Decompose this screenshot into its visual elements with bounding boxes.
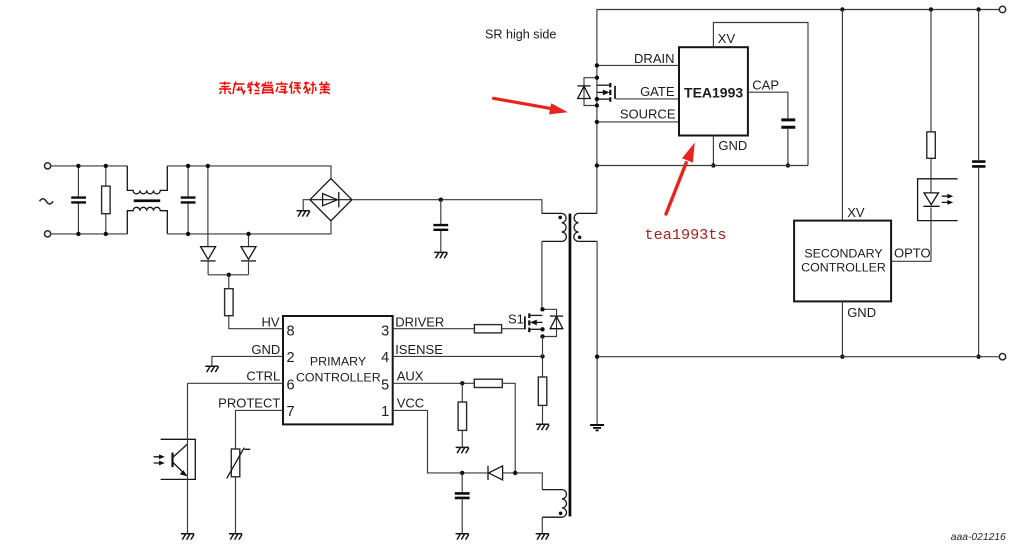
svg-text:1: 1: [381, 404, 389, 420]
red watermark CJK char 6: [290, 82, 302, 95]
wire diode D1 branch from top rail: [207, 166, 209, 247]
wire top rail choke to bridge: [167, 166, 331, 180]
wire opto emitter to ground: [187, 383, 189, 534]
op-amp U3 secondary controller box: [794, 221, 891, 302]
wire varistor to ground: [235, 477, 237, 534]
wire VCC pin1: [393, 410, 488, 473]
svg-text:S1: S1: [508, 311, 524, 326]
red watermark CJK char 7: [304, 82, 317, 95]
inductor L1 common-mode choke bottom winding: [127, 207, 167, 234]
resistor R3 gate: [474, 325, 501, 333]
wire primary bottom to S1 drain: [541, 241, 543, 309]
svg-text:PROTECT: PROTECT: [218, 396, 280, 411]
resistor R6 sense: [538, 377, 547, 405]
wire SR source rail: [597, 165, 808, 167]
transformer T1 core: [569, 214, 572, 517]
wire XV secondary controller: [841, 10, 843, 221]
diode D4 symbol: [550, 315, 563, 317]
capacitor C4: [781, 120, 795, 127]
transistor Q2 channel: [528, 313, 530, 332]
wire GND pin2: [212, 356, 283, 366]
AC terminal top-left: [45, 163, 51, 169]
transistor Q2 S1 gate bar: [524, 316, 526, 329]
capacitor C3 bulk: [439, 198, 443, 202]
opto receive light arrows: [154, 457, 161, 463]
wire AUX pin5: [393, 382, 475, 384]
svg-text:SECONDARY: SECONDARY: [804, 247, 882, 261]
transformer T1 aux polarity dot: [559, 512, 563, 516]
svg-text:6: 6: [287, 377, 295, 393]
svg-text:CAP: CAP: [752, 77, 779, 92]
svg-text:2: 2: [287, 350, 295, 366]
red watermark CJK char 5: [276, 82, 288, 95]
wire output bottom rail: [597, 356, 999, 358]
red watermark CJK char 4: [262, 82, 274, 95]
svg-text:HV: HV: [261, 315, 279, 330]
ground secondary earth: [590, 425, 604, 430]
svg-text:OPTO: OPTO: [894, 246, 931, 261]
inductor L1 core bar: [134, 199, 161, 202]
transistor Q1 drain stub: [597, 84, 610, 86]
inductor L1 common-mode choke top winding: [127, 166, 167, 194]
transistor Q1 bulk arrow: [597, 91, 604, 93]
svg-text:CONTROLLER: CONTROLLER: [296, 370, 381, 384]
svg-text:3: 3: [381, 324, 389, 340]
node dots C2: [186, 164, 190, 168]
resistor R2 HV startup: [229, 275, 283, 329]
wire secondary bottom to output return: [596, 241, 598, 424]
svg-text:TEA1993: TEA1993: [684, 85, 743, 101]
svg-text:SOURCE: SOURCE: [620, 106, 676, 121]
wire DRAIN pin: [597, 64, 679, 66]
svg-text:4: 4: [381, 350, 389, 366]
svg-text:AUX: AUX: [397, 369, 424, 384]
node dots R1: [104, 164, 108, 168]
svg-text:GATE: GATE: [640, 84, 675, 99]
wire CAP pin: [748, 92, 788, 118]
ground GND pin2: [205, 366, 218, 372]
transistor Q1 source stub: [597, 98, 610, 100]
capacitor C1 X-cap: [77, 166, 79, 234]
svg-text:tea1993ts: tea1993ts: [645, 226, 727, 244]
ground C5: [456, 534, 469, 540]
svg-text:GND: GND: [847, 305, 876, 320]
red watermark CJK char 2: [233, 82, 245, 95]
transistor Q1 gate bar: [614, 86, 616, 99]
opto LED light arrows: [942, 196, 949, 202]
wire PROTECT pin7: [236, 410, 284, 449]
bridge rectifier BR1 diamond: [310, 179, 352, 221]
diode D3 symbol: [577, 85, 590, 87]
svg-text:CONTROLLER: CONTROLLER: [801, 260, 886, 274]
transistor Q1 SR MOSFET channel: [609, 83, 611, 102]
wire S1 source to sense resistor: [542, 337, 544, 378]
wire GND pin TEA1993: [712, 136, 714, 166]
diode D1: [201, 247, 216, 260]
svg-text:VCC: VCC: [397, 396, 424, 411]
diode D3 SR body diode loop: [584, 78, 597, 106]
svg-text:GND: GND: [251, 342, 280, 357]
wire aux to ground: [541, 517, 543, 534]
transformer T1 aux winding: [542, 490, 566, 518]
red watermark CJK char 1: [219, 82, 330, 95]
svg-text:GND: GND: [718, 138, 747, 153]
terminal output minus: [999, 354, 1005, 360]
wire bottom input rail: [51, 233, 128, 235]
node ISENSE junction: [540, 354, 544, 358]
AC terminal bottom-left: [45, 231, 51, 237]
capacitor C2 X-cap 2: [187, 166, 189, 234]
wire SR drain vertical: [597, 10, 999, 214]
svg-text:aaa-021216: aaa-021216: [951, 532, 1006, 543]
wire R5 right to junction: [502, 383, 515, 473]
ground R4: [456, 447, 469, 453]
wire bridge output rail: [352, 200, 542, 214]
varistor RT1 diagonal: [227, 448, 251, 479]
ground opto: [181, 534, 194, 540]
wire top input rail: [51, 165, 128, 167]
svg-text:5: 5: [381, 377, 389, 393]
node dots C1: [76, 164, 80, 168]
ground R6: [536, 424, 549, 430]
AC source tilde: [40, 199, 54, 204]
resistor R1 discharge: [105, 166, 107, 234]
bridge BR1 inner diode: [310, 199, 352, 201]
ground varistor: [229, 534, 242, 540]
svg-text:XV: XV: [847, 205, 865, 220]
svg-text:PRIMARY: PRIMARY: [310, 355, 366, 369]
red arrow 1 to SR MOSFET: [494, 98, 568, 114]
wire bottom rail choke to bridge: [167, 222, 331, 234]
wire DRIVER pin3: [393, 328, 475, 330]
capacitor C6 output: [978, 10, 980, 357]
diode D6 opto LED: [924, 193, 939, 205]
wire SOURCE pin: [597, 121, 679, 123]
red arrow 2 to TEA1993: [666, 143, 695, 215]
opto-coupler U4 LED box: [918, 179, 958, 221]
ground aux winding: [536, 534, 549, 540]
wire OPTO pin: [891, 221, 931, 262]
opto-coupler U4 transistor box: [161, 439, 196, 479]
op-amp U1 TEA1993 box: [679, 47, 748, 135]
svg-text:ISENSE: ISENSE: [395, 342, 443, 357]
svg-text:DRIVER: DRIVER: [395, 315, 444, 330]
transformer T1 secondary polarity dot: [578, 236, 582, 240]
diode D5 VCC: [487, 466, 489, 480]
capacitor C5 VCC: [461, 473, 463, 534]
svg-text:XV: XV: [718, 31, 736, 46]
transformer T1 secondary winding: [574, 213, 597, 241]
red watermark CJK char 3: [248, 82, 260, 95]
terminal output plus: [999, 6, 1005, 12]
wire GATE pin: [616, 98, 679, 100]
transistor Q3 opto BJT: [171, 453, 173, 468]
resistor R5 aux: [474, 379, 502, 387]
red watermark CJK char 8: [319, 82, 330, 95]
transistor Q2 drain stub: [530, 314, 542, 316]
wire XV loop: [713, 23, 808, 166]
transformer T1 primary winding: [542, 213, 566, 241]
wire R3 to S1 gate: [502, 328, 525, 330]
svg-text:CTRL: CTRL: [246, 369, 280, 384]
svg-text:7: 7: [287, 404, 295, 420]
resistor R7 feedback: [930, 10, 932, 221]
transistor Q2 bulk arrow: [537, 321, 543, 323]
node D5 junctions: [460, 471, 464, 475]
transformer T1 primary polarity dot: [558, 216, 562, 220]
op-amp U2 primary controller box: [283, 316, 393, 424]
diode D2: [241, 247, 256, 260]
resistor R4: [458, 402, 467, 430]
wire AUX divider down: [461, 383, 463, 402]
wire CTRL pin6: [188, 382, 284, 384]
svg-text:SR high side: SR high side: [485, 27, 556, 41]
svg-text:DRAIN: DRAIN: [634, 51, 674, 66]
wire diode D2 branch from bottom rail: [248, 234, 250, 247]
diode D4 S1 body diode loop: [543, 309, 557, 336]
wire GND secondary controller: [841, 301, 843, 356]
wire ISENSE pin4: [393, 355, 543, 357]
ground C3: [434, 252, 447, 258]
node dots top rail: [840, 7, 844, 11]
wire D1-D2 cathode join: [208, 274, 248, 276]
ground bridge: [303, 200, 310, 211]
varistor RT1: [231, 449, 240, 477]
transistor Q2 source stub: [530, 328, 542, 330]
svg-text:8: 8: [287, 324, 295, 340]
